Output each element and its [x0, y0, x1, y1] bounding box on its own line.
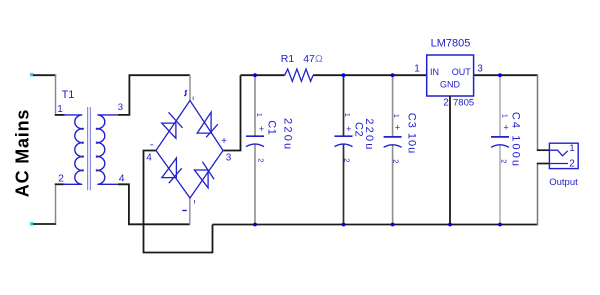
wire T1 pin2 stub [55, 183, 65, 185]
svg-text:Output: Output [549, 177, 578, 188]
svg-text:3: 3 [118, 102, 123, 113]
junction C4 top [498, 73, 502, 77]
T1 primary winding [63, 115, 82, 184]
junction C3 top [391, 73, 395, 77]
junction C1 top [253, 73, 257, 77]
terminal bottom-left (AC input) [30, 222, 34, 226]
T1 secondary winding [97, 115, 118, 184]
svg-text:1: 1 [569, 143, 574, 154]
svg-text:3: 3 [477, 64, 483, 75]
bridge minus mark bottom node [182, 210, 187, 212]
svg-text:2: 2 [257, 158, 266, 162]
svg-text:2: 2 [500, 159, 509, 163]
bridge rectifier diamond wires [156, 101, 223, 199]
svg-text:4: 4 [146, 153, 152, 164]
diode D3 bottom-left (left node to bottom node) [162, 158, 182, 183]
diode D2 top-right (top node to right node) [197, 112, 218, 137]
svg-text:+: + [346, 124, 351, 134]
wire output pin1 riser [537, 74, 539, 150]
capacitor C4 100u [491, 75, 521, 224]
svg-text:1: 1 [414, 64, 420, 75]
T1 core line left [87, 107, 89, 190]
wire top rail R1 to regulator IN [313, 74, 427, 76]
svg-text:C3 10u: C3 10u [405, 113, 417, 154]
svg-text:2: 2 [58, 173, 64, 185]
capacitor C3 10u [384, 75, 418, 224]
bridge AC mark at top node [184, 90, 187, 95]
svg-text:1: 1 [255, 113, 264, 117]
wire bridge top vertical [189, 75, 191, 100]
svg-text:1: 1 [343, 113, 352, 117]
wire top rail left of R1 [241, 74, 285, 76]
wire T1 pin3 to bridge top [118, 75, 190, 115]
junction C4 bottom [498, 223, 502, 227]
svg-text:3: 3 [226, 153, 232, 164]
wire bridge minus node detour to ground rail [144, 151, 213, 253]
svg-text:4: 4 [119, 173, 125, 185]
svg-text:LM7805: LM7805 [431, 38, 471, 50]
wire T1 pin4 to bridge bottom [118, 184, 190, 224]
svg-text:C4 100u: C4 100u [509, 112, 521, 168]
junction C2 bottom [342, 223, 346, 227]
svg-text:GND: GND [440, 80, 461, 90]
bridge pin tick top node [192, 97, 194, 101]
svg-text:47Ω: 47Ω [303, 53, 323, 65]
wire bridge plus node to top rail [223, 75, 241, 150]
wire bottom ground rail [213, 224, 538, 226]
junction C3 bottom [391, 223, 395, 227]
bridge pin tick left node [150, 144, 153, 146]
svg-text:1: 1 [501, 114, 510, 118]
resistor R1 [285, 69, 313, 81]
svg-text:T1: T1 [62, 89, 75, 101]
transformer T1 [63, 115, 118, 184]
junction regulator GND bottom [448, 223, 452, 227]
svg-text:2: 2 [343, 158, 352, 162]
T1 primary winding curls [82, 128, 84, 172]
connector J1 output [549, 143, 578, 170]
wire T1 pin2 riser [55, 185, 57, 223]
wire output pin2 riser [537, 164, 539, 226]
wire T1 pin1 stub [55, 114, 65, 116]
svg-text:1: 1 [57, 104, 63, 115]
bridge pin tick bottom node [194, 200, 196, 204]
svg-text:C1: C1 [265, 120, 277, 135]
regulator U1 LM7805 box [427, 55, 474, 96]
T1 secondary winding curls [96, 128, 98, 172]
svg-text:+: + [395, 123, 400, 133]
svg-text:220u: 220u [363, 118, 375, 151]
svg-text:+: + [221, 136, 227, 147]
junction C2 top [342, 73, 346, 77]
wire output pin2 stub [537, 163, 550, 165]
wire terminal to T1 pin2 horizontal [33, 223, 56, 225]
diode D4 bottom-right (bottom node to right node) [194, 162, 214, 188]
T1 core line right [89, 107, 91, 190]
wire regulator pin 2 to ground rail [449, 96, 451, 225]
wire top rail regulator OUT to output riser [474, 74, 538, 76]
svg-text:1: 1 [392, 114, 401, 118]
wire output pin1 stub [537, 149, 550, 151]
svg-text:AC Mains: AC Mains [13, 109, 33, 197]
svg-text:+: + [503, 123, 508, 133]
wire terminal to T1 pin1 horizontal [33, 74, 56, 76]
svg-text:2: 2 [569, 159, 575, 170]
svg-text:7805: 7805 [453, 98, 474, 109]
svg-text:+: + [259, 124, 264, 134]
terminal top-left (AC input) [30, 73, 34, 77]
wire bridge bottom vertical [189, 198, 191, 224]
capacitor C1 220u [246, 75, 294, 224]
svg-text:R1: R1 [281, 53, 295, 65]
svg-text:220u: 220u [282, 118, 294, 151]
junction C1 bottom [253, 223, 257, 227]
wire T1 pin1 riser [55, 75, 57, 114]
diode D1 top-left (left node to top node) [162, 112, 183, 138]
svg-text:IN: IN [430, 67, 439, 77]
capacitor C2 220u [335, 75, 375, 224]
svg-text:2: 2 [392, 159, 401, 163]
svg-text:OUT: OUT [452, 67, 472, 77]
svg-text:2: 2 [443, 98, 449, 109]
